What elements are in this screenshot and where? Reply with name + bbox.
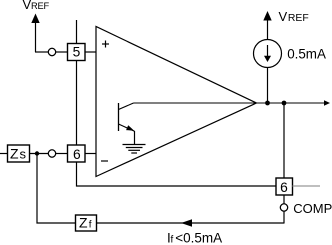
- power arrow VREF (right): [263, 11, 271, 21]
- svg-text:<0.5mA: <0.5mA: [175, 231, 222, 245]
- svg-text:REF: REF: [288, 13, 309, 24]
- transistor Q1 emitter lead with arrow: [119, 124, 135, 131]
- wire below pin box 6 down and right to comp pin box: [77, 162, 277, 186]
- terminal circle COMP: [280, 204, 287, 211]
- current source I1 0.5mA: [254, 40, 282, 68]
- wire Zs node down to Zf: [37, 154, 76, 224]
- wire comp circle to pin box 6 (right): [283, 195, 285, 204]
- op-amp + sign: [102, 41, 109, 48]
- wire current source to VREF arrow: [267, 21, 269, 40]
- pin box 6 (left): [68, 145, 86, 162]
- wire comp circle down to feedback line: [283, 211, 285, 224]
- transistor Q1 collector lead: [119, 103, 134, 110]
- pin box 6 (right): [276, 178, 293, 195]
- node junction at comp branch: [282, 101, 287, 106]
- output arrow: [324, 100, 330, 105]
- terminal circle (pin 6 side): [48, 150, 55, 157]
- wire pin 6 to op-amp - input: [85, 153, 96, 155]
- wire vertical between pin box 5 and pin box 6: [76, 61, 78, 146]
- svg-text:6: 6: [280, 180, 288, 195]
- wire pin box 6 right stub (grey): [293, 185, 321, 187]
- impedance Zf: [76, 214, 97, 231]
- svg-text:COMP: COMP: [293, 201, 332, 216]
- wire pin 5 to op-amp + input: [85, 51, 96, 53]
- svg-text:REF: REF: [31, 1, 50, 11]
- transistor Q1 base bar: [118, 103, 120, 131]
- wire Zf to comp terminal (feedback current path): [97, 222, 285, 224]
- svg-text:f: f: [89, 219, 92, 230]
- svg-text:6: 6: [73, 147, 81, 162]
- label If <0.5mA: [167, 231, 222, 245]
- power arrow VREF (left): [31, 14, 39, 53]
- pin box 5: [68, 44, 86, 61]
- wire circle to pin box 5: [56, 51, 68, 53]
- svg-text:Z: Z: [10, 146, 19, 162]
- op-amp U1 triangle: [96, 27, 257, 177]
- feedback current arrow (pointing left): [181, 219, 192, 226]
- svg-text:5: 5: [73, 45, 81, 60]
- wire output line (collector to output arrow): [134, 102, 325, 104]
- svg-text:f: f: [171, 235, 174, 245]
- impedance Zs: [8, 145, 30, 162]
- wire output node down to pin box 6 (right): [283, 103, 285, 178]
- wire circle to pin box 6: [56, 153, 68, 155]
- label VREF (top right): [279, 9, 309, 24]
- wire Zs to terminal circle: [30, 153, 49, 155]
- terminal circle (pin 5 side): [48, 48, 55, 55]
- wire current source to output node: [267, 68, 269, 104]
- wire VREF to terminal circle: [35, 51, 49, 53]
- node junction at current source: [265, 101, 270, 106]
- svg-text:0.5mA: 0.5mA: [287, 47, 326, 62]
- svg-text:V: V: [279, 9, 288, 24]
- wire left edge to Zs: [0, 153, 8, 155]
- op-amp - sign: [101, 160, 108, 162]
- svg-text:s: s: [20, 147, 27, 162]
- wire vertical above pin box 5: [76, 20, 78, 44]
- svg-text:Z: Z: [79, 214, 88, 230]
- node junction at Zs: [35, 151, 39, 155]
- wire emitter to ground: [134, 131, 136, 145]
- label VREF (top left): [23, 0, 50, 12]
- ground: [123, 145, 146, 154]
